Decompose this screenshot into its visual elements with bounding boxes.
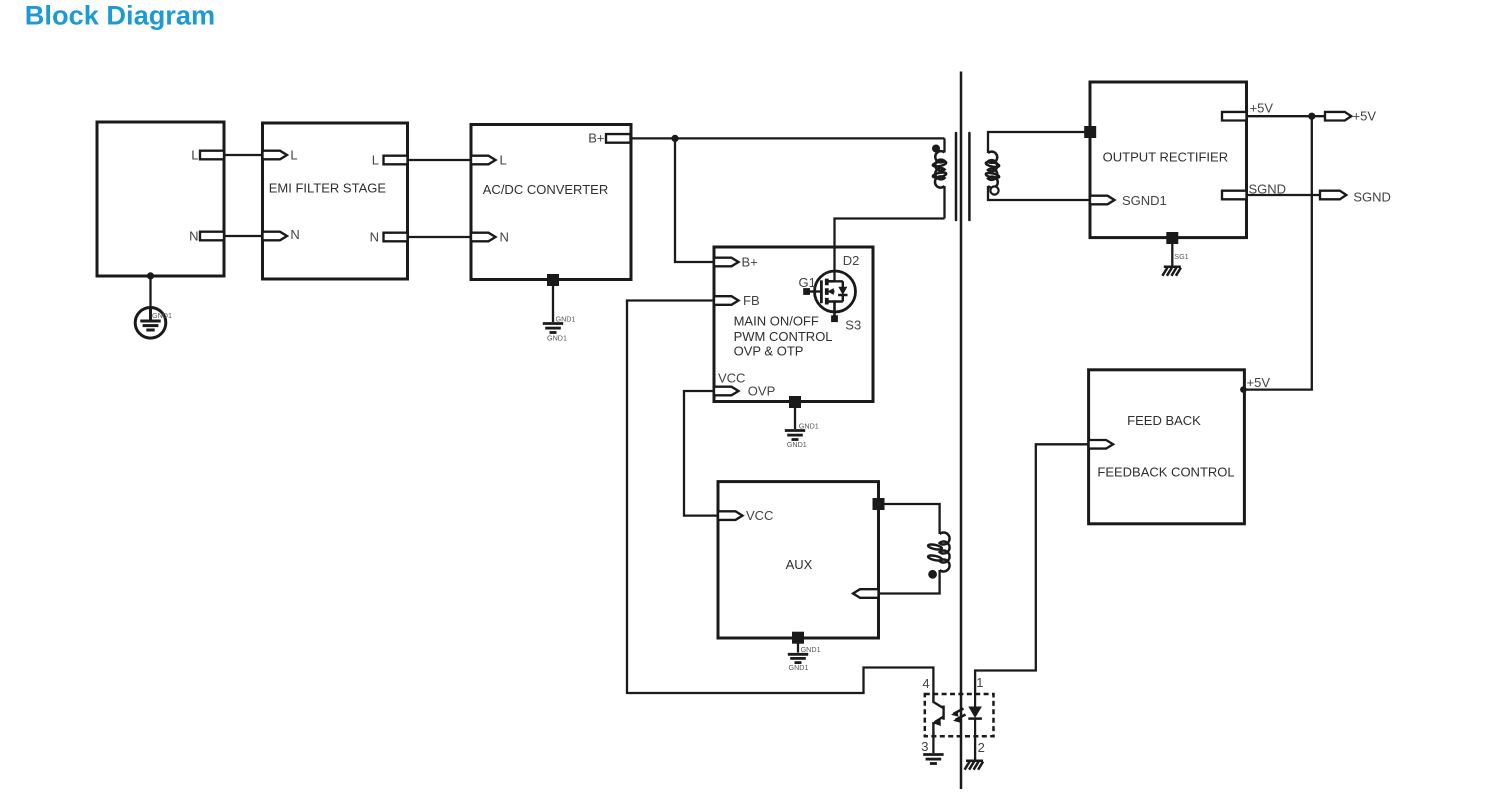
optocoupler dashed body <box>925 694 994 736</box>
wire N input to EMI <box>224 235 263 237</box>
wire drain net <box>835 219 945 282</box>
wire secondary top <box>988 132 1090 153</box>
transformer secondary winding <box>988 152 998 188</box>
pin N EMI left <box>263 232 288 241</box>
block AC/DC CONVERTER <box>471 125 631 280</box>
svg-text:L: L <box>191 147 198 162</box>
pin SGND OUTPUT RECTIFIER right <box>1222 191 1247 200</box>
wire SGND out <box>1247 194 1321 196</box>
junction square AUX gnd <box>792 632 804 644</box>
wire +5V drop to feedback <box>1244 116 1311 389</box>
wire earth lead <box>149 276 151 308</box>
earth ground GND1 input <box>135 308 166 339</box>
mosfet body diode <box>835 281 848 301</box>
svg-text:1: 1 <box>976 675 983 690</box>
svg-text:S3: S3 <box>845 317 861 332</box>
block OUTPUT RECTIFIER <box>1090 82 1247 238</box>
junction dot +5V rail <box>1308 113 1315 120</box>
pin L EMI left <box>263 151 288 160</box>
wire opto pin2 lead <box>974 736 976 760</box>
svg-text:EMI FILTER STAGE: EMI FILTER STAGE <box>269 181 387 196</box>
wire primary top lead <box>943 138 945 152</box>
wire N EMI to AC/DC <box>408 236 472 238</box>
pin AUX right <box>853 589 879 598</box>
svg-text:OUTPUT RECTIFIER: OUTPUT RECTIFIER <box>1103 149 1228 164</box>
GROUND SYMBOLS <box>135 267 1181 770</box>
svg-text:SGND1: SGND1 <box>1122 193 1167 208</box>
svg-text:N: N <box>189 229 198 244</box>
svg-text:+5V: +5V <box>1250 100 1274 115</box>
svg-text:N: N <box>370 229 379 244</box>
junction square AUX out <box>873 498 885 510</box>
pin B+ AC/DC top right <box>606 134 631 143</box>
signal ground GND1 AUX <box>788 654 808 662</box>
mosfet bulk arrow <box>830 290 835 292</box>
svg-text:GND1: GND1 <box>152 311 172 320</box>
svg-text:OVP & OTP: OVP & OTP <box>734 344 804 359</box>
MOSFET Q1 <box>803 271 855 322</box>
svg-text:+5V: +5V <box>1353 109 1377 124</box>
svg-text:SGND: SGND <box>1249 182 1287 197</box>
pin FEEDBACK left <box>1089 440 1114 449</box>
transformer primary winding <box>935 151 945 187</box>
wire primary bottom lead <box>943 186 945 219</box>
svg-text:L: L <box>500 152 507 167</box>
wire +5V out <box>1247 115 1326 117</box>
wire L EMI to AC/DC <box>408 159 472 161</box>
block FEEDBACK CONTROL <box>1089 370 1245 524</box>
signal ground opto pin3 <box>923 755 943 764</box>
block EMI FILTER STAGE <box>263 123 408 279</box>
wire feedback pin to opto pin1 <box>975 444 1089 694</box>
svg-text:GND1: GND1 <box>799 422 819 431</box>
junction dot B+ rail <box>671 135 678 142</box>
block MAIN ON/OFF PWM CONTROL <box>714 247 873 402</box>
block AUX <box>718 482 879 638</box>
svg-text:MAIN ON/OFF: MAIN ON/OFF <box>734 313 819 328</box>
svg-text:B+: B+ <box>588 131 604 146</box>
pin L EMI right <box>384 156 408 165</box>
svg-text:G1: G1 <box>799 275 816 290</box>
transformer core right line <box>968 133 971 220</box>
pin OVP PWM left <box>714 387 739 396</box>
junction square SG1 <box>1166 232 1178 244</box>
svg-text:4: 4 <box>922 676 929 691</box>
svg-text:L: L <box>372 152 379 167</box>
wire B+ drop to PWM <box>675 138 714 262</box>
aux polarity dot <box>928 570 937 579</box>
wire PWM gnd lead <box>794 402 796 429</box>
svg-text:3: 3 <box>921 739 928 754</box>
pin N EMI right <box>384 233 408 242</box>
wire AUX winding loop <box>879 504 940 594</box>
svg-text:VCC: VCC <box>718 371 745 386</box>
wire FB net <box>627 301 933 695</box>
signal ground GND1 PWM <box>785 431 805 440</box>
pin VCC AUX left <box>718 511 743 520</box>
isolation barrier line <box>960 72 963 790</box>
secondary polarity dot <box>990 186 998 194</box>
svg-text:SGND: SGND <box>1353 190 1391 205</box>
wire L input to EMI <box>224 154 263 156</box>
svg-text:AC/DC CONVERTER: AC/DC CONVERTER <box>483 182 608 197</box>
wire B+ rail <box>631 137 945 139</box>
opto LED <box>974 694 976 707</box>
transformer core left line <box>955 133 958 220</box>
svg-text:FB: FB <box>743 293 760 308</box>
wire secondary bottom <box>988 186 1090 200</box>
wire AUX gnd lead <box>797 638 799 653</box>
junction square PWM gnd <box>789 396 801 408</box>
svg-text:FEED BACK: FEED BACK <box>1127 413 1201 428</box>
svg-text:+5V: +5V <box>1247 375 1271 390</box>
svg-text:GND1: GND1 <box>556 314 576 323</box>
mosfet drain connect <box>827 280 835 283</box>
terminal flag +5V <box>1325 112 1351 121</box>
opto light arrows <box>954 709 966 720</box>
pin L input right <box>200 151 224 160</box>
mosfet body circle <box>815 271 856 312</box>
svg-text:AUX: AUX <box>786 557 813 572</box>
svg-text:Block Diagram: Block Diagram <box>25 0 215 30</box>
svg-text:FEEDBACK CONTROL: FEEDBACK CONTROL <box>1097 464 1234 479</box>
junction dot feedback +5V <box>1240 386 1247 393</box>
pin +5V OUTPUT RECTIFIER right <box>1222 112 1247 121</box>
svg-text:GND1: GND1 <box>801 645 821 654</box>
svg-text:N: N <box>290 227 299 242</box>
mosfet source pad S3 <box>831 315 838 322</box>
wire AC/DC gnd lead <box>552 280 554 322</box>
opto phototransistor <box>933 694 943 736</box>
svg-text:VCC: VCC <box>746 508 773 523</box>
mosfet source connect <box>827 302 835 317</box>
chassis ground opto pin2 <box>965 761 984 770</box>
chassis ground SG1 <box>1162 267 1181 276</box>
AUX WINDING <box>928 533 950 572</box>
junction square AC/DC gnd <box>547 274 559 286</box>
svg-text:PWM CONTROL: PWM CONTROL <box>734 329 833 344</box>
mosfet gate bar <box>820 280 823 303</box>
junction dot input bottom <box>147 272 154 279</box>
svg-text:OVP: OVP <box>748 383 775 398</box>
OPTOCOUPLER U2 <box>925 694 994 736</box>
wire opto pin3 lead <box>932 736 934 753</box>
pin N AC/DC left <box>471 233 496 242</box>
primary polarity dot <box>932 145 940 153</box>
pin L AC/DC left <box>471 156 496 165</box>
pin SGND1 OUTPUT RECTIFIER left <box>1090 196 1115 205</box>
pin N input right <box>200 232 224 241</box>
svg-text:2: 2 <box>978 740 985 755</box>
junction square OUTPUT RECTIFIER left <box>1084 126 1096 138</box>
mosfet channel segments <box>825 279 829 305</box>
terminal flag SGND <box>1320 191 1346 200</box>
pin FB PWM left <box>714 296 739 305</box>
wire VCC net <box>684 391 718 516</box>
svg-text:L: L <box>290 147 297 162</box>
signal ground GND1 AC/DC <box>543 324 563 333</box>
svg-text:GND1: GND1 <box>789 663 809 672</box>
aux winding coil <box>940 533 950 572</box>
svg-text:SG1: SG1 <box>1174 252 1188 261</box>
mosfet gate lead G1 <box>806 290 821 292</box>
svg-text:D2: D2 <box>843 253 860 268</box>
block input box <box>97 122 224 276</box>
svg-text:GND1: GND1 <box>547 333 567 342</box>
pin B+ PWM left <box>714 258 739 267</box>
PINS <box>200 112 1351 598</box>
svg-text:B+: B+ <box>742 254 758 269</box>
svg-text:N: N <box>500 229 509 244</box>
wire SG1 lead <box>1171 238 1173 266</box>
TRANSFORMER T1 <box>932 72 999 790</box>
svg-text:GND1: GND1 <box>787 440 807 449</box>
